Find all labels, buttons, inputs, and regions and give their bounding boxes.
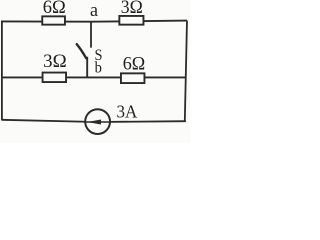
current source I1 arrowhead [87, 120, 101, 125]
resistor R1 box [42, 16, 65, 24]
current source I1 arrow tail [86, 121, 110, 123]
wire bottom [2, 120, 186, 122]
wire right vertical [185, 21, 187, 122]
resistor R2 box [119, 16, 143, 25]
wire middle [2, 76, 186, 78]
node b stub wire [86, 57, 88, 78]
resistor R4 box [121, 73, 145, 83]
svg-text:6Ω: 6Ω [123, 54, 146, 74]
switch S blade [77, 44, 87, 58]
current source I1 circle [85, 109, 110, 134]
wire top [2, 21, 187, 22]
svg-text:a: a [90, 0, 99, 21]
svg-text:6Ω: 6Ω [43, 0, 66, 18]
node a stub wire [90, 22, 92, 48]
wire left vertical [1, 21, 3, 121]
svg-text:3Ω: 3Ω [43, 52, 67, 72]
svg-text:3A: 3A [117, 101, 138, 121]
svg-text:3Ω: 3Ω [121, 0, 143, 18]
resistor R3 box [43, 73, 67, 83]
svg-text:b: b [95, 60, 102, 77]
